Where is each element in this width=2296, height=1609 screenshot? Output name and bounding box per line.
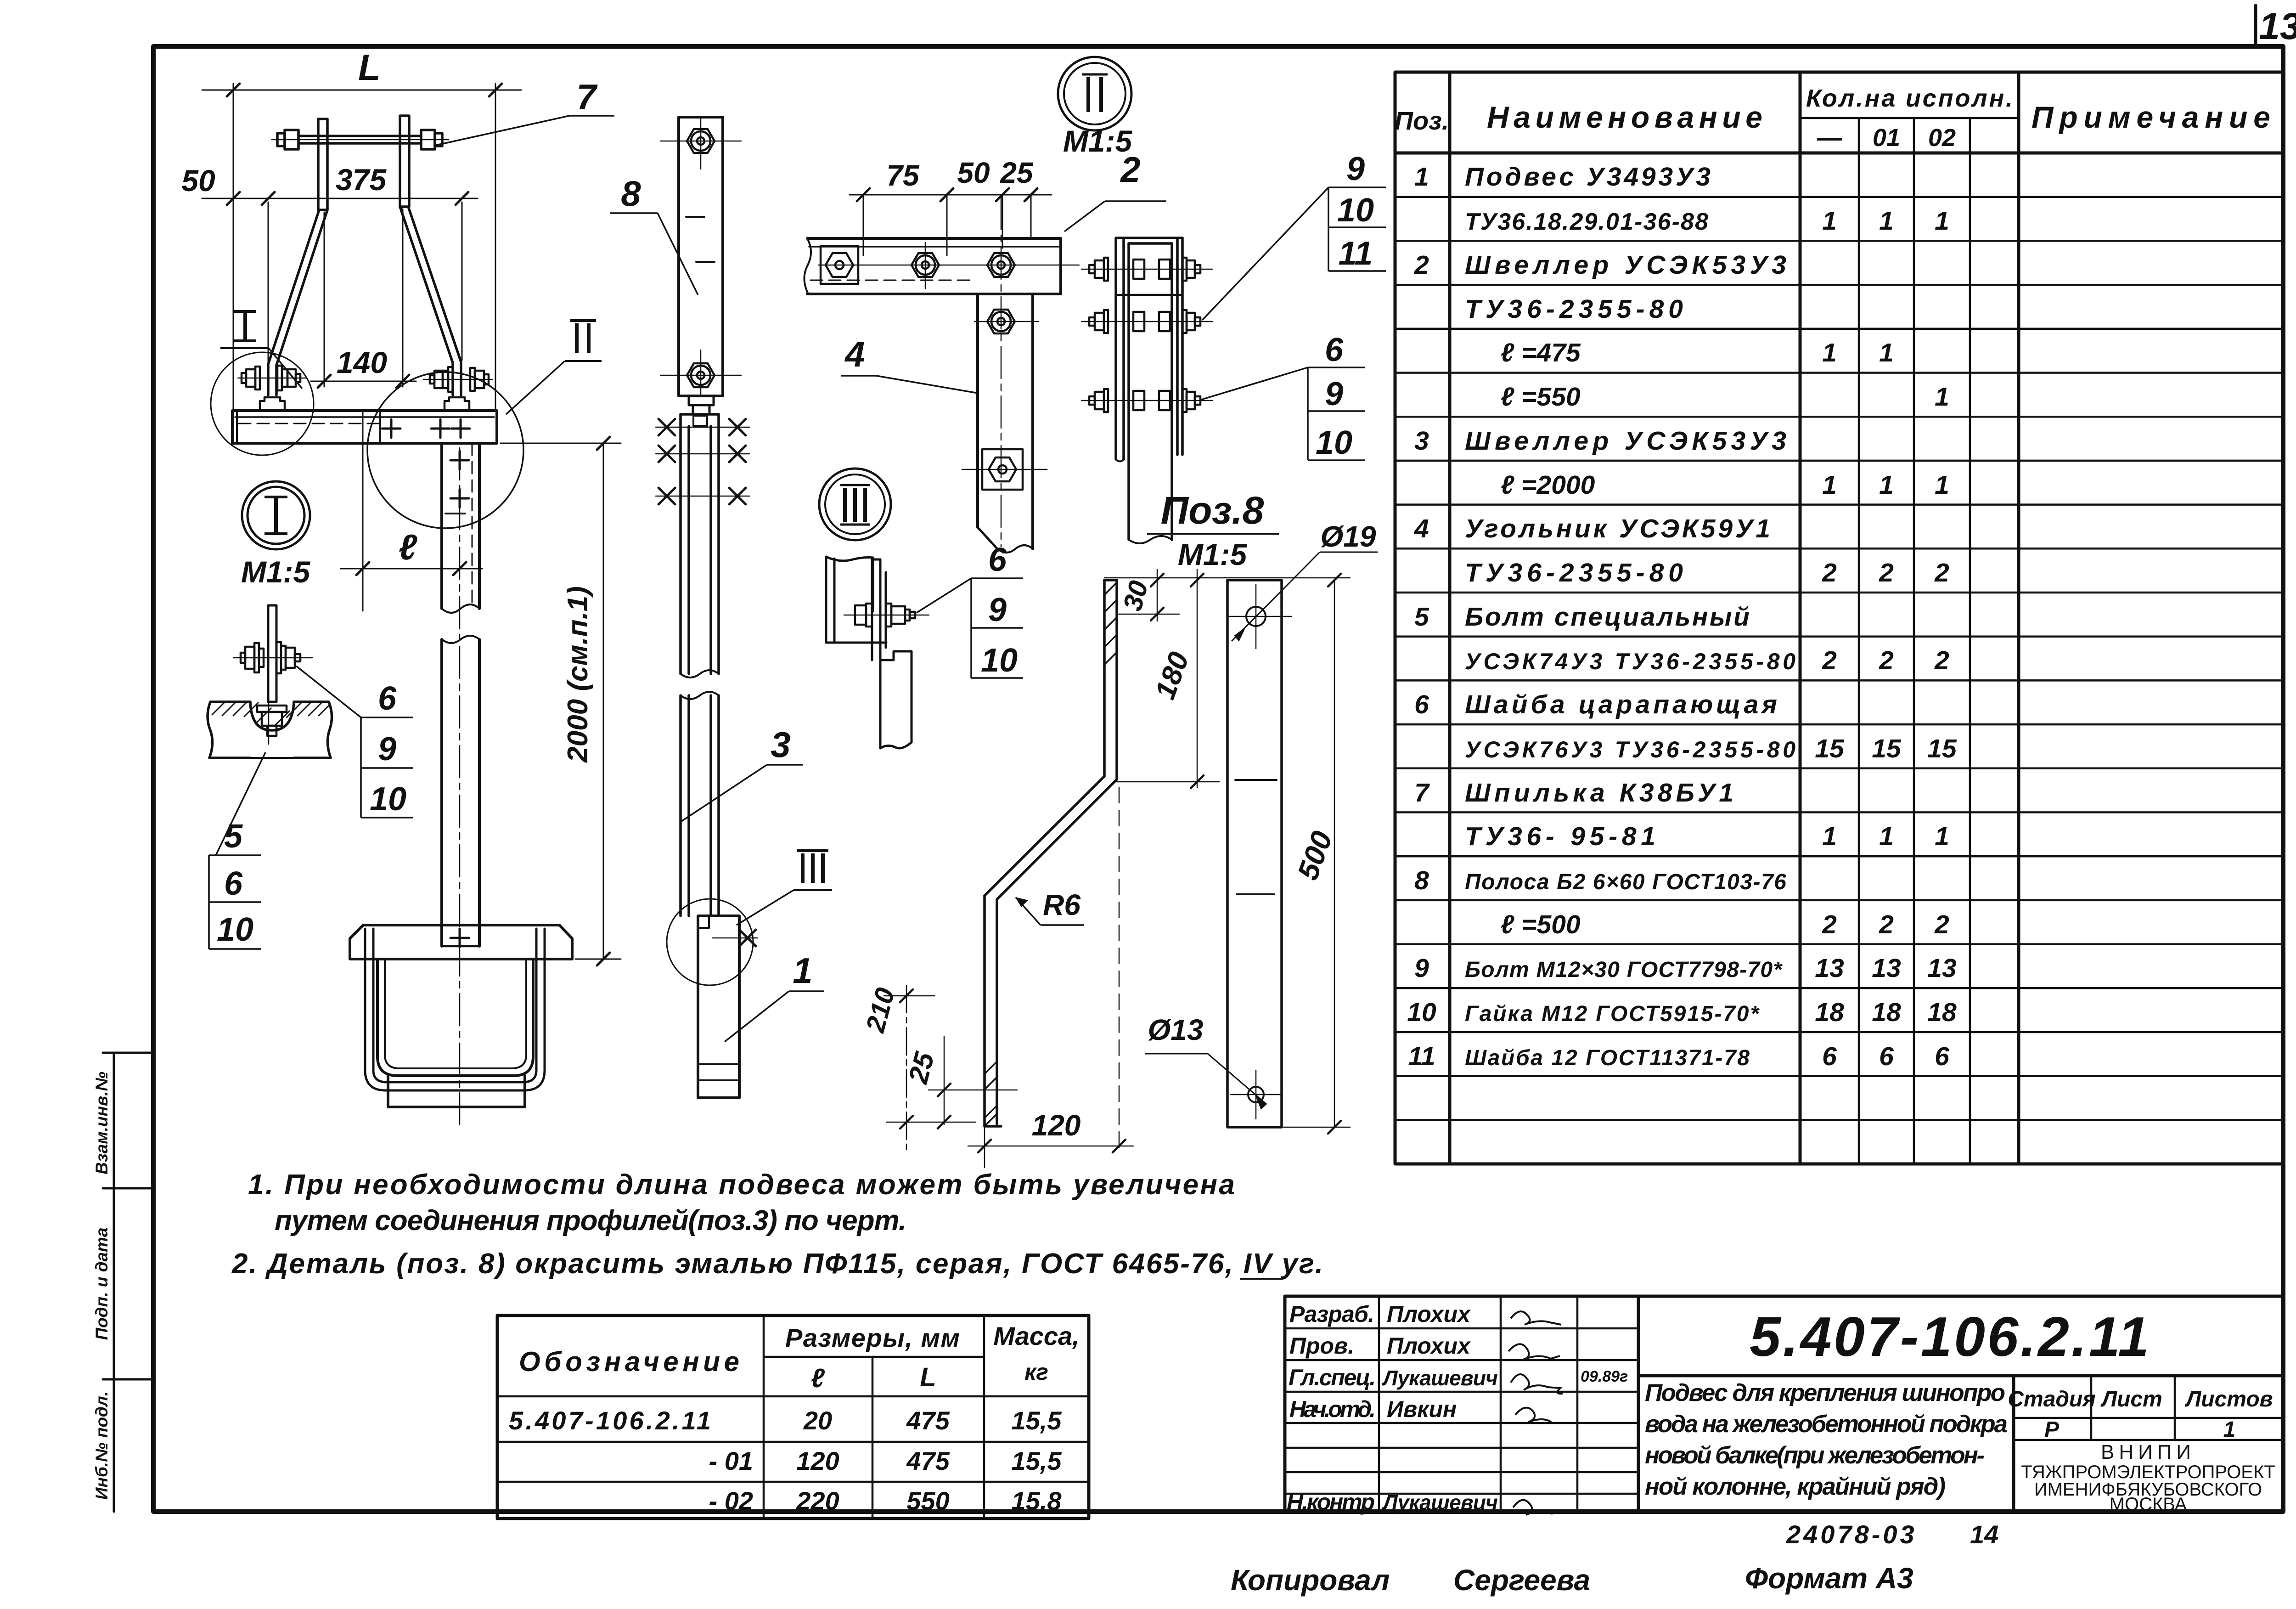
svg-text:ℓ =2000: ℓ =2000 bbox=[1501, 470, 1595, 500]
svg-text:50: 50 bbox=[957, 156, 990, 189]
svg-text:1: 1 bbox=[1935, 382, 1949, 412]
svg-text:ТУ36.18.29.01-36-88: ТУ36.18.29.01-36-88 bbox=[1465, 209, 1708, 235]
bolt M12 поз.9 bottom bbox=[687, 363, 715, 387]
svg-text:8: 8 bbox=[1414, 866, 1429, 895]
svg-text:2: 2 bbox=[1934, 646, 1949, 675]
svg-text:375: 375 bbox=[336, 163, 387, 197]
svg-text:1: 1 bbox=[1879, 338, 1894, 367]
svg-text:1: 1 bbox=[1822, 338, 1837, 367]
svg-text:Примечание: Примечание bbox=[2032, 100, 2270, 134]
hole d19 bbox=[1246, 607, 1266, 626]
svg-text:1: 1 bbox=[1879, 206, 1894, 236]
svg-text:Шпилька К38БУ1: Шпилька К38БУ1 bbox=[1465, 778, 1733, 807]
svg-text:Взам.инв.№: Взам.инв.№ bbox=[92, 1072, 111, 1174]
svg-text:1: 1 bbox=[1879, 470, 1894, 500]
left hanger strap bbox=[268, 207, 461, 395]
dimension 30 bbox=[1119, 570, 1179, 621]
detail circle II bbox=[367, 372, 523, 528]
svg-text:9: 9 bbox=[1325, 376, 1343, 412]
bolts M12 поз.9 on bar bbox=[912, 253, 939, 277]
svg-text:6: 6 bbox=[1935, 1042, 1949, 1071]
hatching on beam flange bbox=[212, 702, 329, 726]
stud (шпилька) поз.7 bbox=[277, 130, 442, 149]
svg-text:4: 4 bbox=[844, 334, 865, 374]
svg-text:ℓ: ℓ bbox=[811, 1363, 825, 1393]
strip side view (Z-bent) bbox=[985, 580, 1117, 1126]
svg-text:Ø19: Ø19 bbox=[1321, 520, 1376, 553]
svg-text:2. Деталь (поз. 8) окрасить эм: 2. Деталь (поз. 8) окрасить эмалью ПФ115… bbox=[231, 1248, 1324, 1280]
svg-text:ВНИПИ: ВНИПИ bbox=[2101, 1441, 2195, 1463]
svg-text:2: 2 bbox=[1934, 558, 1949, 587]
svg-text:475: 475 bbox=[906, 1406, 950, 1435]
svg-text:09.89г: 09.89г bbox=[1581, 1368, 1628, 1385]
svg-text:L: L bbox=[920, 1362, 936, 1392]
svg-text:7: 7 bbox=[1414, 778, 1430, 807]
svg-text:2: 2 bbox=[1822, 646, 1837, 675]
svg-text:10: 10 bbox=[1316, 424, 1352, 461]
svg-text:Стадия: Стадия bbox=[2008, 1387, 2095, 1411]
detail circle III bbox=[667, 899, 753, 985]
svg-text:15: 15 bbox=[1927, 734, 1957, 763]
svg-text:Листов: Листов bbox=[2184, 1387, 2273, 1411]
svg-text:4: 4 bbox=[1414, 514, 1429, 543]
dimension 500 bbox=[1283, 574, 1350, 1134]
svg-text:Нач.отд.: Нач.отд. bbox=[1289, 1396, 1376, 1422]
svg-text:Сергеева: Сергеева bbox=[1453, 1564, 1590, 1597]
svg-text:Лукашевич: Лукашевич bbox=[1382, 1490, 1498, 1514]
notes text bbox=[231, 1169, 1324, 1280]
svg-text:МОСКВА: МОСКВА bbox=[2110, 1494, 2187, 1514]
svg-text:13: 13 bbox=[2259, 6, 2296, 47]
svg-text:220: 220 bbox=[796, 1486, 839, 1515]
hook strip поз.8 edge bbox=[872, 559, 886, 660]
right hanger strap bbox=[408, 207, 461, 395]
svg-text:2: 2 bbox=[1879, 910, 1894, 939]
svg-text:18: 18 bbox=[1927, 998, 1957, 1027]
svg-text:75: 75 bbox=[886, 159, 920, 192]
svg-text:9: 9 bbox=[1346, 151, 1365, 187]
svg-text:L: L bbox=[358, 47, 381, 88]
bolt tail and nut below beam bbox=[257, 702, 287, 744]
bolts M12 поз.9 with nuts 10 washers 11 bbox=[1081, 258, 1212, 412]
svg-text:Плохих: Плохих bbox=[1387, 1333, 1471, 1359]
svg-text:- 01: - 01 bbox=[709, 1446, 754, 1475]
svg-text:3: 3 bbox=[771, 724, 790, 765]
svg-text:120: 120 bbox=[1032, 1109, 1081, 1142]
strap plate bbox=[268, 605, 276, 702]
parts table body rows bbox=[1407, 162, 1957, 1071]
parts table grid bbox=[1395, 72, 2283, 1164]
svg-text:50: 50 bbox=[181, 164, 215, 198]
svg-text:13: 13 bbox=[1927, 954, 1957, 983]
svg-text:путем соединения профилей(поз.: путем соединения профилей(поз.3) по черт… bbox=[275, 1205, 906, 1236]
T-stem (угольник 4 / профиль 3) bbox=[442, 443, 479, 946]
bucket box bbox=[377, 959, 533, 1076]
svg-text:1: 1 bbox=[1935, 470, 1949, 500]
left clamp: bolt поз.5 washer 6 nut 10 bbox=[238, 366, 307, 411]
page number box (top right) bbox=[2254, 6, 2257, 46]
svg-text:кг: кг bbox=[1024, 1359, 1048, 1385]
svg-text:Копировал: Копировал bbox=[1231, 1564, 1390, 1597]
svg-text:6: 6 bbox=[988, 542, 1007, 578]
svg-text:7: 7 bbox=[576, 77, 598, 117]
svg-text:R6: R6 bbox=[1043, 888, 1080, 921]
svg-text:15: 15 bbox=[1815, 734, 1845, 763]
svg-text:2000 (см.п.1): 2000 (см.п.1) bbox=[562, 586, 594, 763]
svg-text:1: 1 bbox=[1935, 822, 1949, 851]
svg-text:10: 10 bbox=[370, 781, 406, 818]
dimension 50 / 375 bbox=[202, 192, 478, 362]
svg-text:6: 6 bbox=[1879, 1042, 1894, 1071]
svg-text:1: 1 bbox=[1935, 206, 1949, 236]
special bolt поз.5 with square washer bbox=[821, 246, 858, 284]
dimension 180 bbox=[1115, 570, 1219, 788]
svg-text:Н.контр: Н.контр bbox=[1287, 1489, 1375, 1515]
bolt marks in channel bbox=[382, 419, 470, 508]
svg-text:9: 9 bbox=[988, 592, 1007, 628]
svg-text:Ивкин: Ивкин bbox=[1387, 1396, 1457, 1422]
svg-text:Поз.8: Поз.8 bbox=[1161, 489, 1264, 532]
strip поз.8 (front face) bbox=[679, 117, 723, 396]
dimension 120 bbox=[968, 787, 1133, 1168]
bucket bottom plate bbox=[388, 1076, 525, 1107]
svg-text:11: 11 bbox=[1339, 235, 1373, 272]
svg-text:3: 3 bbox=[1414, 426, 1429, 456]
variants table grid bbox=[497, 1315, 1089, 1519]
svg-text:вода на железобетонной подкра: вода на железобетонной подкра bbox=[1645, 1411, 2008, 1438]
right clamp: bolt 5 washer 6 nut 10 bbox=[423, 367, 492, 411]
svg-text:2: 2 bbox=[1879, 646, 1894, 675]
svg-text:8: 8 bbox=[621, 173, 641, 214]
svg-text:Ø13: Ø13 bbox=[1148, 1013, 1204, 1046]
svg-text:1: 1 bbox=[1822, 470, 1837, 500]
svg-text:2: 2 bbox=[1414, 250, 1429, 280]
svg-text:—: — bbox=[1817, 124, 1842, 152]
svg-text:Лист: Лист bbox=[2100, 1387, 2162, 1411]
svg-text:новой балке(при железобетон-: новой балке(при железобетон- bbox=[1645, 1442, 1985, 1469]
svg-text:10: 10 bbox=[1407, 998, 1436, 1027]
busway flange below bbox=[880, 651, 912, 748]
svg-text:15,8: 15,8 bbox=[1012, 1486, 1062, 1515]
dimension ℓ bbox=[341, 411, 482, 611]
label I with leader bbox=[220, 311, 302, 389]
underline of IV in note 2 bbox=[1240, 1278, 1283, 1280]
svg-text:ℓ =500: ℓ =500 bbox=[1501, 910, 1581, 939]
svg-text:1: 1 bbox=[1414, 162, 1429, 192]
svg-text:1. При необходимости длина под: 1. При необходимости длина подвеса может… bbox=[248, 1169, 1236, 1201]
svg-text:Плохих: Плохих bbox=[1387, 1301, 1471, 1327]
svg-text:18: 18 bbox=[1815, 998, 1844, 1027]
bucket U-strap bbox=[365, 929, 545, 1090]
bolt M12 on stem bbox=[987, 310, 1015, 333]
label II with leader bbox=[506, 321, 602, 414]
dimension 2000 (см.п.1) bbox=[501, 437, 621, 965]
svg-text:20: 20 bbox=[803, 1406, 832, 1435]
svg-text:Формат А3: Формат А3 bbox=[1745, 1562, 1913, 1595]
svg-text:25: 25 bbox=[1000, 156, 1034, 189]
svg-text:6: 6 bbox=[224, 865, 243, 902]
detail circle label II bbox=[1058, 57, 1131, 130]
svg-text:2: 2 bbox=[1120, 149, 1140, 190]
svg-text:5: 5 bbox=[1414, 602, 1429, 632]
svg-text:140: 140 bbox=[337, 345, 387, 379]
detail circle I bbox=[211, 352, 314, 455]
svg-text:Размеры, мм: Размеры, мм bbox=[785, 1323, 960, 1352]
svg-text:1: 1 bbox=[1879, 822, 1894, 851]
svg-text:24078-03: 24078-03 bbox=[1786, 1520, 1917, 1549]
break marks bbox=[1235, 779, 1277, 781]
svg-text:Разраб.: Разраб. bbox=[1289, 1301, 1374, 1327]
bolt x-marks rows bbox=[656, 419, 749, 504]
svg-text:1: 1 bbox=[1822, 206, 1837, 236]
joint neck below strip bbox=[689, 396, 714, 414]
svg-text:Р: Р bbox=[2044, 1417, 2060, 1442]
svg-text:Полоса Б2 6×60 ГОСТ103-76: Полоса Б2 6×60 ГОСТ103-76 bbox=[1465, 870, 1786, 894]
svg-text:10: 10 bbox=[217, 911, 253, 948]
dimension 210 bbox=[884, 985, 934, 1151]
svg-text:ной колонне, крайний ряд): ной колонне, крайний ряд) bbox=[1645, 1473, 1946, 1500]
dimension 25 bbox=[886, 1036, 1017, 1129]
channel поз.2 bar bbox=[804, 238, 1061, 294]
channel flange section bbox=[826, 557, 886, 643]
svg-text:Гл.спец.: Гл.спец. bbox=[1289, 1365, 1376, 1390]
dimensions 75 50 25 bbox=[850, 188, 1052, 255]
svg-text:18: 18 bbox=[1872, 998, 1901, 1027]
svg-text:2: 2 bbox=[1879, 558, 1894, 587]
svg-text:М1:5: М1:5 bbox=[241, 555, 311, 589]
detail circle label I M1:5 bbox=[242, 481, 310, 549]
bucket поз.1 top plate bbox=[350, 925, 572, 959]
svg-text:15,5: 15,5 bbox=[1012, 1446, 1062, 1475]
svg-text:11: 11 bbox=[1408, 1042, 1435, 1071]
bucket поз.1 side view bbox=[698, 916, 739, 1098]
svg-text:2: 2 bbox=[1934, 910, 1949, 939]
svg-text:Подвес для крепления шинопро: Подвес для крепления шинопро bbox=[1645, 1379, 2005, 1406]
svg-text:- 02: - 02 bbox=[709, 1486, 754, 1515]
svg-text:Гайка М12 ГОСТ5915-70*: Гайка М12 ГОСТ5915-70* bbox=[1465, 1002, 1760, 1026]
svg-text:9: 9 bbox=[378, 731, 396, 768]
svg-text:6: 6 bbox=[1325, 332, 1344, 368]
svg-text:Поз.: Поз. bbox=[1395, 106, 1449, 135]
svg-text:Лукашевич: Лукашевич bbox=[1382, 1366, 1498, 1390]
break in profile bbox=[681, 670, 719, 677]
svg-text:М1:5: М1:5 bbox=[1178, 537, 1248, 571]
svg-text:ТУ36- 95-81: ТУ36- 95-81 bbox=[1465, 822, 1655, 851]
hatching on strip edge bbox=[985, 582, 1117, 1126]
svg-text:6: 6 bbox=[1822, 1042, 1837, 1071]
detail circle label III bbox=[819, 469, 891, 540]
hole d13 bbox=[1248, 1087, 1264, 1102]
title block texts bbox=[1287, 1301, 1628, 1515]
svg-text:475: 475 bbox=[906, 1446, 950, 1475]
svg-text:9: 9 bbox=[1414, 954, 1429, 983]
svg-text:10: 10 bbox=[981, 642, 1018, 679]
svg-text:5.407-106.2.11: 5.407-106.2.11 bbox=[1750, 1305, 2149, 1368]
svg-text:ℓ =475: ℓ =475 bbox=[1501, 338, 1581, 367]
bolt поз.9 with nut 10 washer 6 bbox=[844, 615, 929, 616]
svg-text:2: 2 bbox=[1822, 558, 1837, 587]
svg-text:120: 120 bbox=[796, 1446, 839, 1475]
svg-text:Шайба 12 ГОСТ11371-78: Шайба 12 ГОСТ11371-78 bbox=[1465, 1046, 1750, 1070]
svg-text:6: 6 bbox=[1414, 690, 1429, 719]
svg-text:15,5: 15,5 bbox=[1012, 1406, 1062, 1435]
svg-text:02: 02 bbox=[1928, 124, 1956, 152]
svg-text:ℓ =550: ℓ =550 bbox=[1501, 382, 1581, 412]
svg-text:5: 5 bbox=[224, 818, 243, 855]
svg-text:14: 14 bbox=[1970, 1520, 1998, 1549]
title block grid bbox=[1285, 1296, 2283, 1512]
sidebar rotated texts bbox=[92, 1072, 111, 1500]
crane beam flange with U-cut bbox=[208, 702, 332, 758]
svg-text:1: 1 bbox=[1822, 822, 1837, 851]
svg-text:2: 2 bbox=[1822, 910, 1837, 939]
svg-text:Масса,: Масса, bbox=[993, 1321, 1079, 1350]
bolt head and nut 10, washers 6 bbox=[241, 642, 300, 673]
svg-text:Болт специальный: Болт специальный bbox=[1465, 602, 1750, 632]
svg-text:1: 1 bbox=[2223, 1417, 2236, 1442]
svg-text:Пров.: Пров. bbox=[1289, 1333, 1354, 1359]
profile 3 side view top bbox=[681, 414, 719, 674]
hanger strap top plates bbox=[318, 119, 327, 210]
svg-text:550: 550 bbox=[906, 1486, 949, 1515]
svg-text:Шайба царапающая: Шайба царапающая bbox=[1465, 690, 1777, 719]
break marks on strip bbox=[686, 216, 704, 218]
angle поз.4 stem bbox=[978, 294, 1033, 553]
bolt M12 поз.9 top bbox=[687, 129, 715, 153]
svg-text:13: 13 bbox=[1815, 954, 1844, 983]
svg-text:01: 01 bbox=[1873, 124, 1900, 152]
svg-text:Обозначение: Обозначение bbox=[519, 1346, 739, 1377]
strip front view bbox=[1227, 580, 1282, 1127]
svg-text:10: 10 bbox=[1337, 192, 1374, 229]
svg-text:6: 6 bbox=[378, 680, 397, 717]
special bolt поз.5 axis bbox=[233, 657, 312, 659]
svg-text:15: 15 bbox=[1872, 734, 1902, 763]
svg-text:Подп. и дата: Подп. и дата bbox=[92, 1227, 111, 1340]
svg-text:1: 1 bbox=[793, 950, 812, 991]
special bolt on stem bbox=[982, 449, 1023, 490]
label III with leader bbox=[737, 851, 832, 925]
svg-text:Кол.на исполн.: Кол.на исполн. bbox=[1806, 85, 2013, 112]
dimension 140 bbox=[310, 209, 416, 388]
channel поз.2 bbox=[232, 411, 497, 443]
shared extension line bbox=[1104, 577, 1350, 579]
svg-text:ℓ: ℓ bbox=[399, 527, 417, 567]
dimension L bbox=[202, 84, 521, 411]
svg-text:13: 13 bbox=[1872, 954, 1901, 983]
svg-text:Болт М12×30 ГОСТ7798-70*: Болт М12×30 ГОСТ7798-70* bbox=[1465, 958, 1783, 982]
signatures bbox=[1508, 1311, 1563, 1515]
left sidebar column lines bbox=[113, 1053, 115, 1512]
svg-text:Инб.№ подл.: Инб.№ подл. bbox=[92, 1391, 111, 1500]
